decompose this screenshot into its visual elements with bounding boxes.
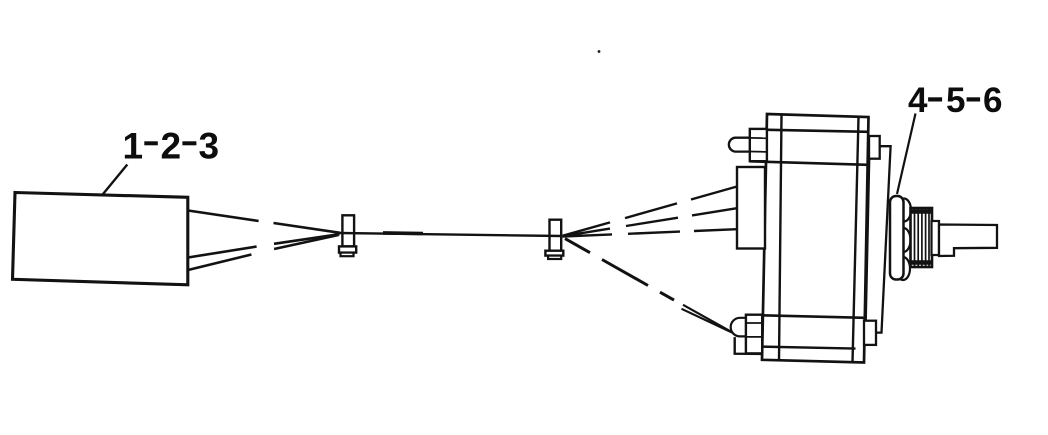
motor front face left edge [779, 116, 782, 361]
bolt B1 shaft [342, 215, 354, 246]
part box 1-2-3 (relay/switch block) [13, 193, 188, 285]
svg-text:2: 2 [161, 125, 182, 166]
wire tape marks [383, 231, 423, 235]
motor back plate [762, 114, 869, 363]
motor front face right edge [853, 118, 859, 363]
harness fan to motor: bottom lead (dashed) [563, 229, 738, 236]
bushing thread rib 2 [917, 209, 919, 266]
collar hex bump bottom [896, 257, 910, 280]
collar hex bump top [897, 199, 911, 222]
top stud inner upper line [750, 137, 767, 139]
bushing thread rib 1 [914, 209, 916, 266]
wire fan from box: upper lead segment b [274, 223, 341, 233]
motor bottom band upper line [746, 315, 865, 318]
bushing thread rib 4 [925, 209, 927, 266]
bottom stud inner lower line [746, 336, 763, 338]
collar hex bump middle [897, 228, 911, 252]
svg-text:6: 6 [983, 81, 1002, 120]
bushing top thread band [911, 209, 932, 213]
wire fan from box: upper lead segment a [188, 211, 259, 222]
bottom stud foot bracket [735, 337, 762, 354]
harness branch: wedge end bottom line [682, 309, 734, 333]
collar flange [890, 196, 904, 280]
main harness wire [339, 233, 562, 236]
right bottom corner box [864, 321, 876, 345]
threaded bushing [911, 208, 933, 267]
bushing bottom thread band [911, 260, 932, 264]
harness branch: wedge end top line [683, 305, 735, 334]
svg-text:1: 1 [123, 125, 144, 166]
top stud inner lower line [750, 151, 767, 153]
bolt B1 lip [341, 253, 354, 257]
svg-text:3: 3 [199, 125, 220, 166]
motor bottom band lower line [761, 347, 856, 349]
bolt B1 flange [339, 246, 356, 252]
motor top band upper line [750, 130, 868, 132]
stray scan dot [598, 50, 601, 53]
wire fan from box: lower lead segment b [274, 235, 338, 249]
right side panel [866, 146, 891, 332]
bolt B2 flange [545, 251, 563, 256]
bolt B2 lip [548, 256, 561, 259]
bushing thread rib 5 [928, 209, 930, 266]
wire fan from box: middle lead segment a [188, 247, 257, 258]
bottom stud inner upper line [746, 322, 763, 324]
side connector block [737, 167, 765, 249]
svg-text:4: 4 [908, 81, 928, 120]
right top corner box [869, 136, 880, 159]
output shaft (stepped) [939, 225, 997, 257]
wire fan from box: middle lead segment b [274, 234, 340, 244]
harness fan to motor: top lead (dashed) [563, 187, 738, 236]
bolt B2 shaft [550, 220, 562, 251]
leader line for label 4-5-6 [897, 114, 916, 195]
motor top band lower line [750, 161, 868, 165]
harness fan to motor: middle lead (dashed) [563, 208, 738, 236]
bushing thread rib 3 [921, 209, 923, 266]
label 1-2-3 [123, 125, 220, 166]
svg-text:5: 5 [946, 81, 965, 120]
step ring [932, 221, 940, 255]
bottom terminal pin [731, 318, 748, 337]
harness branch to lower stud: bold dashed lead [565, 239, 674, 301]
label 4-5-6 [908, 81, 1002, 120]
wire fan from box: lower lead segment a [188, 255, 251, 271]
leader line for label 1-2-3 [102, 165, 128, 196]
bottom stud block [746, 315, 762, 354]
top stud block [750, 129, 767, 161]
top terminal pin [729, 138, 750, 152]
